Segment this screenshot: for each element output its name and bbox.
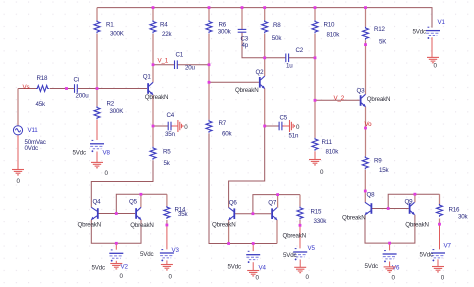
- wire: [50, 88, 75, 90]
- resistor R18: [36, 86, 49, 92]
- svg-text:330k: 330k: [314, 218, 328, 225]
- svg-text:R16: R16: [449, 207, 461, 214]
- svg-text:R6: R6: [219, 22, 227, 29]
- svg-text:Q7: Q7: [268, 200, 277, 207]
- wire: [265, 57, 286, 59]
- wire: [208, 8, 210, 21]
- wire: [314, 8, 316, 21]
- wire Q1 collector: [152, 65, 154, 83]
- svg-text:45k: 45k: [36, 101, 47, 108]
- resistor R2: [94, 106, 100, 119]
- svg-text:V3: V3: [172, 247, 180, 254]
- wire V11 to ground: [17, 135, 19, 169]
- wire to V4: [252, 244, 254, 252]
- wire: [96, 8, 98, 21]
- node mirror3 base: [387, 207, 390, 210]
- wire mirror3 top rail: [388, 194, 439, 208]
- wire to R14: [166, 194, 168, 206]
- ground 0 at V7: [432, 267, 444, 272]
- node mirror2 base: [252, 212, 255, 215]
- wire Q9 collector: [414, 194, 416, 202]
- node Q1 emitter C4: [152, 125, 155, 128]
- svg-text:35k: 35k: [178, 211, 189, 218]
- transistor Q9: [410, 202, 415, 215]
- wire R16 to V7: [439, 224, 441, 249]
- svg-text:V4: V4: [259, 265, 267, 272]
- ground 0 at V11: [12, 170, 24, 175]
- transistor Q2: [260, 76, 265, 89]
- wire V8 to ground: [96, 152, 98, 163]
- svg-text:R4: R4: [160, 22, 168, 29]
- wire: [171, 125, 178, 127]
- svg-text:810k: 810k: [327, 31, 341, 38]
- wire mirror1 top rail: [116, 194, 167, 213]
- wire: [152, 34, 154, 65]
- svg-text:300k: 300k: [218, 29, 232, 36]
- svg-text:R12: R12: [374, 26, 386, 33]
- resistor R11: [312, 138, 318, 151]
- svg-text:Q8: Q8: [367, 192, 376, 199]
- svg-text:Q2: Q2: [256, 69, 265, 76]
- node Q2 emitter C5: [263, 125, 266, 128]
- node rail-R8: [263, 6, 266, 9]
- ground 0 at V8: [91, 162, 103, 167]
- node rail-R12: [364, 6, 367, 9]
- node Q7 collector: [276, 193, 279, 196]
- wire Q7 collector: [277, 195, 279, 208]
- svg-text:810k: 810k: [326, 149, 340, 156]
- wire V6 to ground: [389, 262, 391, 267]
- node R1-R2 base: [96, 87, 99, 90]
- wire: [264, 8, 266, 21]
- wire to V6: [389, 243, 391, 250]
- wire V_2 to Q3 base: [315, 99, 360, 101]
- svg-text:Q9: Q9: [405, 199, 414, 206]
- ground 0 at V1: [427, 57, 439, 62]
- wire V1 to ground: [431, 37, 433, 57]
- wire R9 to Q8 collector: [364, 170, 366, 203]
- wire: [96, 34, 98, 89]
- wire C3 bottom to R8 node: [242, 33, 265, 58]
- node rail-R10: [314, 6, 317, 9]
- battery V2: [109, 250, 123, 262]
- wire Q1 emitter to C4 node: [152, 95, 154, 126]
- wire C3 top: [241, 8, 243, 29]
- node Q2 base tee: [208, 81, 211, 84]
- wire: [166, 220, 168, 225]
- node mirror1 emitter V2: [115, 242, 118, 245]
- wire V3 to ground: [166, 260, 168, 264]
- wire V_1 node to C1: [153, 64, 174, 66]
- node R12 bottom: [364, 43, 367, 46]
- svg-text:QbreakN: QbreakN: [367, 96, 391, 103]
- wire R11 to ground: [314, 151, 316, 159]
- wire: [365, 8, 367, 27]
- wire C2 to R10 column: [289, 57, 315, 59]
- svg-text:QbreakN: QbreakN: [130, 222, 154, 229]
- battery V1: [426, 27, 440, 39]
- ground 0 at V4: [247, 271, 259, 276]
- resistor R16: [437, 204, 443, 217]
- node Vo: [364, 127, 367, 130]
- svg-text:R2: R2: [107, 100, 115, 107]
- wire VCC top rail: [97, 8, 432, 28]
- wire Q7 emitter: [276, 220, 278, 244]
- capacitor C4: [168, 122, 171, 131]
- resistor R9: [362, 156, 368, 169]
- svg-text:QbreakN: QbreakN: [212, 222, 236, 229]
- svg-text:V2: V2: [121, 264, 129, 271]
- svg-text:V11: V11: [28, 127, 39, 134]
- wire mirror3 emitter rail: [365, 215, 415, 243]
- wire R5 to Q4 collector: [91, 160, 153, 207]
- ground 0 at V3: [161, 265, 173, 270]
- wire Q5 collector: [140, 194, 142, 207]
- wire mirror1 emitter rail: [91, 220, 141, 244]
- battery V6: [383, 251, 397, 263]
- transistor Q1: [148, 82, 153, 95]
- wire R6 bottom / V_1 node / Q2 base node: [208, 34, 210, 120]
- svg-text:R11: R11: [322, 139, 333, 146]
- wire: [282, 125, 289, 127]
- svg-text:R1: R1: [106, 22, 114, 29]
- svg-text:R18: R18: [37, 75, 49, 82]
- svg-text:51n: 51n: [289, 132, 300, 139]
- wire R2 to V8: [96, 120, 98, 140]
- svg-text:5Vdc: 5Vdc: [92, 264, 105, 271]
- svg-text:15k: 15k: [379, 167, 390, 174]
- wire Q2 emitter to C5 node: [264, 88, 266, 126]
- ground 0 at V6: [384, 267, 396, 272]
- resistor R12: [363, 27, 369, 40]
- battery V3: [160, 250, 174, 262]
- svg-text:R10: R10: [324, 22, 336, 29]
- transistor Q6: [229, 208, 235, 221]
- wire R12 to Q3 collector: [365, 40, 367, 94]
- ground 0 at V2: [110, 264, 122, 269]
- resistor R15: [297, 207, 303, 220]
- svg-text:5Vdc: 5Vdc: [365, 263, 378, 270]
- wire: [299, 220, 301, 225]
- svg-text:C5: C5: [280, 115, 288, 122]
- wire Q4-Q5 base rail: [98, 213, 135, 215]
- ground 0 at C5: [290, 120, 295, 132]
- svg-text:Q5: Q5: [129, 199, 138, 206]
- svg-text:QbreakN: QbreakN: [235, 87, 259, 94]
- node R15 bottom: [299, 224, 302, 227]
- wire Q2 collector: [264, 58, 266, 76]
- wire to V2: [115, 243, 117, 249]
- svg-text:35n: 35n: [165, 131, 176, 138]
- svg-text:50k: 50k: [272, 35, 283, 42]
- wire Vs node: [18, 88, 36, 90]
- wire V7 to ground: [437, 259, 439, 266]
- svg-text:V6: V6: [392, 264, 400, 271]
- battery V7: [431, 250, 445, 262]
- capacitor C2: [286, 54, 289, 63]
- node rail-R6: [208, 6, 211, 9]
- svg-text:QbreakN: QbreakN: [145, 94, 169, 101]
- battery V5: [293, 249, 307, 261]
- wire to C4: [153, 125, 168, 127]
- svg-text:V7: V7: [444, 243, 452, 250]
- wire: [314, 34, 316, 58]
- svg-text:20u: 20u: [185, 64, 196, 71]
- svg-text:R8: R8: [273, 22, 281, 29]
- node R9-Q8: [364, 190, 367, 193]
- resistor R5: [150, 147, 156, 160]
- wire V2 to ground: [115, 261, 117, 264]
- node Vs wire joint: [65, 87, 68, 90]
- svg-text:R5: R5: [163, 149, 171, 156]
- transistor Q5: [136, 207, 141, 220]
- wire: [96, 89, 98, 107]
- node Q9 collector: [414, 193, 417, 196]
- svg-text:Vo: Vo: [365, 121, 373, 128]
- svg-text:Ci: Ci: [74, 77, 79, 84]
- svg-text:QbreakN: QbreakN: [342, 214, 366, 221]
- svg-text:C2: C2: [296, 47, 304, 54]
- node C2-R10: [314, 56, 317, 59]
- svg-text:4p: 4p: [242, 42, 249, 49]
- node rail-R4: [152, 6, 155, 9]
- svg-text:QbreakN: QbreakN: [78, 222, 102, 229]
- svg-text:300K: 300K: [110, 30, 125, 37]
- source V11: [13, 126, 22, 135]
- node mirror1 base: [115, 212, 118, 215]
- svg-text:R9: R9: [374, 158, 382, 165]
- node V_2: [314, 99, 317, 102]
- svg-text:5Vdc: 5Vdc: [420, 251, 433, 258]
- capacitor C1: [175, 60, 178, 69]
- svg-text:Q6: Q6: [229, 200, 238, 207]
- wire: [152, 126, 154, 147]
- svg-text:V8: V8: [103, 150, 111, 157]
- resistor R8: [262, 20, 268, 33]
- wire to R16: [439, 194, 441, 205]
- svg-text:5Vdc: 5Vdc: [228, 263, 241, 270]
- svg-text:V1: V1: [438, 19, 446, 26]
- node mirror3 emitter V6: [388, 242, 391, 245]
- svg-text:Q4: Q4: [93, 199, 102, 206]
- resistor R6: [206, 20, 212, 33]
- svg-text:22k: 22k: [162, 31, 173, 38]
- svg-text:QbreakN: QbreakN: [405, 222, 429, 229]
- node Q5 collector: [140, 193, 143, 196]
- wire V4 to ground: [252, 262, 254, 270]
- svg-text:C4: C4: [167, 112, 175, 119]
- svg-text:5Vdc: 5Vdc: [140, 251, 153, 258]
- node V_1: [152, 63, 155, 66]
- node R14 bottom: [166, 224, 169, 227]
- svg-text:30k: 30k: [458, 214, 469, 221]
- svg-text:0Vdc: 0Vdc: [25, 145, 38, 152]
- node rail-C3: [241, 6, 244, 9]
- wire to C5: [265, 125, 279, 127]
- wire R14 to V3: [166, 225, 168, 249]
- wire mirror2 top rail: [253, 195, 300, 214]
- svg-text:1u: 1u: [286, 63, 293, 70]
- resistor R4: [150, 20, 156, 33]
- svg-text:300K: 300K: [110, 108, 125, 115]
- capacitor Ci: [75, 84, 78, 93]
- svg-text:Q1: Q1: [143, 74, 152, 81]
- wire to R15: [299, 195, 301, 207]
- svg-text:5k: 5k: [164, 160, 171, 167]
- wire to Q2 base: [209, 81, 259, 83]
- wire Vs to V11: [17, 89, 19, 126]
- resistor R10: [312, 20, 318, 33]
- ground 0 at V5: [294, 267, 306, 272]
- node R16 bottom: [438, 223, 441, 226]
- capacitor C5: [279, 122, 282, 131]
- wire: [152, 8, 154, 21]
- resistor R7: [206, 120, 212, 133]
- wire: [264, 34, 266, 58]
- svg-text:5Vdc: 5Vdc: [73, 150, 86, 157]
- capacitor C3: [238, 29, 247, 32]
- svg-text:V_2: V_2: [334, 95, 345, 102]
- wire R7 to mirror2 emitter rail: [209, 133, 277, 243]
- svg-text:5Vdc: 5Vdc: [413, 28, 426, 35]
- wire C1 to R6 column: [177, 64, 209, 66]
- svg-text:R7: R7: [219, 120, 227, 127]
- wire R15 to V5: [299, 225, 301, 248]
- transistor Q7: [272, 208, 277, 221]
- transistor Q8: [365, 202, 372, 215]
- wire Q6-Q7 base rail: [234, 213, 271, 215]
- svg-text:R15: R15: [311, 209, 323, 216]
- transistor Q4: [91, 207, 98, 220]
- wire C2 node to V_2 node: [314, 58, 316, 101]
- wire Q3 emitter Vo node to R9: [365, 107, 367, 157]
- wire V_2 node to R11: [314, 100, 316, 138]
- wire Ci to Q1 base: [78, 88, 147, 90]
- battery V4: [246, 251, 260, 263]
- node mirror2 emitter V4: [252, 242, 255, 245]
- svg-text:5K: 5K: [379, 39, 387, 46]
- svg-text:Vs: Vs: [23, 84, 30, 91]
- svg-text:Q3: Q3: [357, 88, 366, 95]
- wire: [439, 219, 441, 225]
- transistor Q3: [361, 94, 366, 107]
- node Q6 emitter rail: [227, 242, 230, 245]
- node C1-R6: [208, 63, 211, 66]
- resistor R1: [94, 20, 100, 33]
- node R8-Q2-C2: [263, 56, 266, 59]
- wire V5 to ground: [299, 260, 301, 268]
- wire Q8-Q9 base rail: [371, 208, 408, 210]
- svg-text:V_1: V_1: [158, 58, 169, 65]
- svg-text:C1: C1: [176, 52, 184, 59]
- svg-text:60k: 60k: [222, 131, 233, 138]
- ground 0 at R11: [309, 160, 321, 165]
- svg-text:5Vdc: 5Vdc: [283, 252, 296, 259]
- wire Q2 emitter to Q6 collector: [229, 126, 265, 208]
- svg-text:V5: V5: [308, 245, 316, 252]
- wire Q6 emitter: [228, 220, 230, 244]
- battery V8: [90, 140, 104, 152]
- ground 0 at C4: [178, 120, 183, 132]
- svg-text:QbreakN: QbreakN: [283, 233, 307, 240]
- svg-text:200u: 200u: [76, 92, 90, 99]
- resistor R14: [164, 206, 170, 219]
